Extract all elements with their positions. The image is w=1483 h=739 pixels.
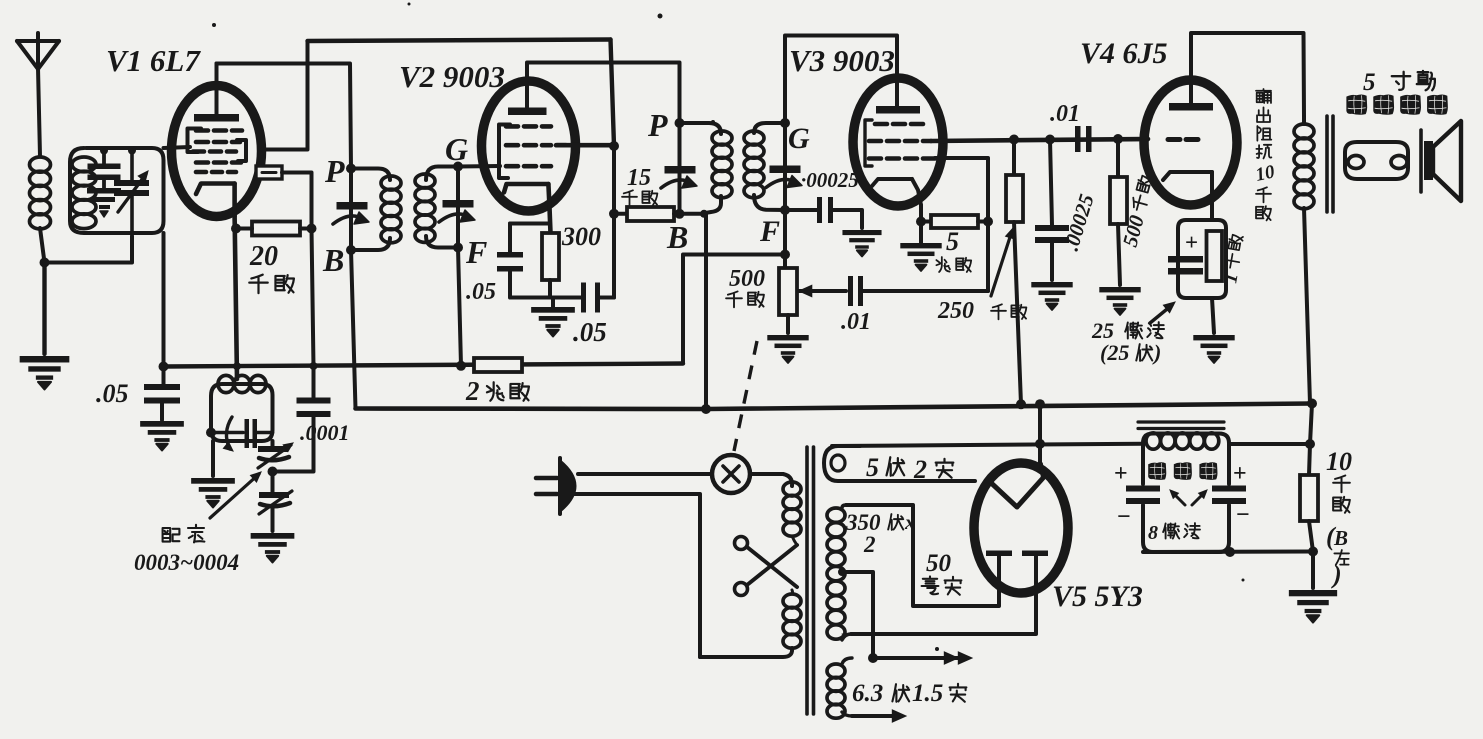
primary winding upper — [783, 482, 801, 536]
T1 primary coil — [381, 176, 401, 243]
svg-text:10: 10 — [1326, 447, 1352, 476]
wire T2 primary line — [678, 123, 682, 214]
wire T1 primary line — [349, 169, 353, 251]
wire switch to primary — [750, 474, 792, 486]
svg-text:−: − — [1236, 502, 1250, 528]
label .00025 t2 — [801, 168, 859, 192]
ground in-box — [87, 180, 121, 217]
ground trimmer2 — [251, 533, 295, 562]
V1 plate bar — [194, 114, 239, 122]
label 6.3V — [852, 680, 966, 707]
label 8uF — [1148, 522, 1200, 544]
resistor 2M — [474, 358, 522, 372]
tube V5 5Y3 — [974, 463, 1068, 593]
label .05 cath — [466, 279, 496, 305]
wire screen top bus — [308, 40, 611, 42]
wire V5 right plate — [851, 556, 1036, 634]
label qian-ou 20k — [249, 275, 294, 293]
selector X — [735, 537, 798, 596]
capacitor 8uF right — [1212, 486, 1246, 505]
svg-text:1.5: 1.5 — [912, 680, 943, 707]
tube V4 6J5 — [1144, 80, 1237, 205]
label V4 6J5 — [1080, 37, 1168, 70]
V3 grid cap bar — [876, 106, 920, 114]
label 20 — [249, 241, 278, 272]
svg-text:50: 50 — [926, 550, 952, 577]
capacitor .01 wiper — [848, 276, 988, 306]
label P1 — [324, 153, 345, 189]
label 50mA b — [0, 0, 1, 1]
label .05 left — [96, 379, 129, 408]
wire plug top — [578, 472, 712, 476]
svg-text:F: F — [759, 215, 780, 248]
V1 grid dashes r3 — [193, 149, 236, 154]
label 1k rot — [1219, 234, 1249, 285]
T2 primary trimmer — [661, 166, 697, 188]
ground pot — [767, 335, 808, 363]
wire T2 B drop — [704, 214, 708, 409]
speaker xfmr line — [1302, 117, 1306, 124]
svg-text:.01: .01 — [1050, 101, 1080, 127]
ground F2 bypass — [842, 230, 881, 256]
T1 secondary coil — [415, 174, 435, 242]
label plus 25uF — [1185, 230, 1198, 255]
label 350Vx2 — [845, 510, 916, 557]
node cathode-20k — [231, 224, 241, 234]
V1 grid dashes r5 — [196, 170, 236, 175]
label 2 MOhm — [465, 376, 529, 406]
antenna coil secondary box — [70, 148, 164, 233]
label pot qian-ou — [726, 291, 764, 307]
capacitor antenna trimmer — [88, 151, 121, 181]
ground 10k — [1289, 590, 1337, 623]
node B+ 250k — [1016, 399, 1026, 409]
node AVC-cath — [233, 362, 241, 370]
label output imp vertical — [1254, 89, 1277, 220]
V4 cathode — [1163, 172, 1212, 220]
antenna coil primary — [30, 157, 51, 229]
node screen-15k — [609, 209, 619, 219]
wire V2 plate top — [527, 63, 680, 124]
arrow 250k — [991, 228, 1014, 296]
capacitor padder — [258, 441, 293, 468]
label G1 — [445, 131, 468, 167]
V2 grid dashes r1 — [506, 124, 551, 129]
T1 primary loop — [351, 169, 390, 251]
ground antenna — [20, 356, 70, 389]
T1 primary trimmer — [333, 202, 369, 224]
primary winding lower — [783, 536, 801, 648]
label V2 9003 — [399, 59, 505, 94]
svg-text:(25: (25 — [1100, 340, 1129, 365]
V1 grid bracket left — [188, 129, 202, 153]
label .01 coupling — [1050, 101, 1080, 127]
V2 grid bracket — [499, 125, 510, 179]
svg-text:.05: .05 — [466, 279, 496, 305]
wire V3 cathode down — [919, 205, 923, 222]
wire center tap — [842, 572, 873, 658]
capacitor main tuning C1 — [114, 151, 149, 234]
speaker cone — [1433, 121, 1461, 201]
svg-text:10: 10 — [1254, 161, 1277, 186]
svg-text:.00025: .00025 — [1059, 191, 1099, 253]
V2 cathode — [504, 184, 551, 233]
svg-text:20: 20 — [249, 241, 278, 272]
wire field coil right — [1229, 442, 1310, 446]
svg-text:V3 9003: V3 9003 — [789, 43, 895, 78]
wire V1 plate to top — [215, 64, 219, 115]
V4 cathode box — [1178, 220, 1226, 298]
wire osc box gnd — [211, 441, 215, 476]
node field right — [1305, 439, 1315, 449]
wire V5 left plate — [846, 505, 999, 606]
xfmr core — [807, 447, 814, 714]
T1 secondary loop — [426, 167, 458, 248]
wire V1 plate top run — [217, 64, 352, 169]
node B+ right — [1307, 399, 1317, 409]
wire trimmer2 gnd — [271, 508, 275, 531]
svg-text:V2 9003: V2 9003 — [399, 59, 505, 94]
V3 bracket — [865, 120, 872, 166]
antenna coil secondary — [72, 157, 96, 229]
label V5 5Y3 — [1052, 580, 1143, 613]
wire G1 to V2 — [458, 164, 500, 169]
V2 plate bar — [508, 108, 547, 116]
ground .05 left — [140, 421, 184, 450]
capacitor .0001 — [297, 366, 331, 417]
label 15k qian-ou — [622, 190, 657, 205]
V3 grid dashes r1 — [875, 122, 923, 127]
dashed line pot-switch — [734, 341, 757, 451]
V5 plates — [986, 551, 1048, 557]
wire T1 sec line — [456, 167, 460, 248]
node G2 — [780, 118, 790, 128]
node 20k right — [307, 224, 317, 234]
label peiding — [163, 525, 205, 543]
V1 grid dashes r2 — [196, 140, 240, 145]
specks — [212, 3, 1245, 652]
ground V2 cathode — [531, 298, 575, 337]
wire wiper up — [986, 222, 990, 292]
label 500 pot — [729, 266, 765, 292]
T2 primary loop — [680, 123, 722, 213]
label 300 — [561, 222, 601, 251]
label + right — [1233, 461, 1247, 487]
label .05 screen — [573, 317, 607, 347]
speaker magnet — [1421, 130, 1433, 192]
wire V4 cath gnd — [1212, 298, 1214, 333]
arrow 25uF — [1150, 302, 1175, 323]
svg-text:G: G — [788, 122, 810, 155]
resistor 5M grid leak — [921, 215, 988, 228]
wire ant sec bottom drop — [162, 233, 166, 367]
node G1 — [453, 162, 463, 172]
node F1 — [453, 243, 463, 253]
label 50mA — [922, 550, 962, 595]
svg-text:): ) — [1331, 560, 1342, 589]
node tuning cap top — [128, 147, 136, 155]
capacitor .00025 plate — [1035, 140, 1069, 281]
wire junction down — [42, 263, 46, 355]
wire V1 osc grid — [282, 173, 312, 229]
winding 6.3V — [827, 658, 852, 718]
arrow peiding — [210, 472, 261, 518]
svg-text:2: 2 — [913, 455, 927, 484]
field coil core — [1138, 422, 1224, 429]
V3 grid dashes r3 — [869, 156, 935, 161]
node filament-B+ — [1035, 439, 1045, 449]
wire AVC bus — [164, 364, 684, 367]
label 5 — [946, 227, 959, 256]
wire F1 drop — [458, 248, 461, 366]
svg-text:−: − — [1117, 504, 1131, 530]
node right cap bottom — [1225, 547, 1235, 557]
node P1 — [346, 164, 356, 174]
label 10k — [1326, 447, 1352, 589]
label F1 — [465, 234, 487, 270]
svg-text:): ) — [1152, 340, 1161, 365]
svg-text:2: 2 — [465, 376, 480, 406]
node plate-250k — [1009, 135, 1019, 145]
label 5V2A — [866, 453, 953, 484]
wire padder to .0001 — [273, 417, 314, 472]
svg-text:8: 8 — [1148, 522, 1158, 544]
wire antenna lead-in — [38, 68, 40, 156]
node HV center tap — [838, 568, 846, 576]
svg-text:15: 15 — [627, 165, 651, 191]
label 250k — [937, 298, 1026, 324]
node antenna junction — [40, 258, 50, 268]
node screen-V2 — [609, 141, 619, 151]
svg-text:300: 300 — [561, 222, 601, 251]
svg-text:350: 350 — [845, 510, 881, 535]
wire 10k gnd — [1311, 552, 1315, 589]
oscillator coil loops — [218, 375, 266, 392]
capacitor .05 cathode — [497, 224, 553, 298]
label .00025 rot — [1059, 191, 1099, 253]
svg-text:V4 6J5: V4 6J5 — [1080, 37, 1168, 70]
node V3 cathode — [916, 217, 926, 227]
ground osc — [191, 478, 235, 507]
wire F2 avc link — [683, 255, 785, 364]
V1 grid dashes r4 — [196, 160, 241, 165]
wire antenna coil to junction — [40, 228, 45, 263]
wire B+ link — [1038, 404, 1042, 464]
wire 6.3 arrow — [852, 710, 906, 722]
wire G2 up-over — [785, 36, 897, 124]
label + left — [1114, 461, 1128, 487]
capacitor F2 bypass — [785, 197, 862, 228]
wire B2 to drop — [680, 212, 705, 216]
antenna — [17, 33, 59, 69]
wire junction to tuning cap — [45, 236, 133, 263]
svg-text:x: x — [904, 510, 916, 534]
V1 screen wire — [262, 41, 308, 150]
T2 primary coil — [712, 131, 732, 198]
svg-text:.01: .01 — [841, 309, 871, 335]
wire filter bottom rail — [1143, 550, 1313, 555]
wire primary bottom — [557, 494, 792, 657]
node AVC-F1 — [456, 361, 466, 371]
V4 plate bar — [1169, 103, 1213, 111]
resistor 500k pot — [779, 255, 797, 334]
T2 secondary coil — [744, 131, 764, 198]
node grid-500k — [1113, 134, 1123, 144]
AC plug — [536, 458, 575, 514]
label field coil — [1148, 462, 1217, 480]
label .0001 — [300, 420, 350, 445]
wire T2 sec line — [783, 123, 787, 255]
wire V3 grid out — [935, 158, 988, 222]
wire plug bottom — [0, 0, 1, 1]
V1 grid dashes r1 — [196, 128, 242, 133]
wire 5V loop — [824, 446, 975, 481]
svg-text:V5 5Y3: V5 5Y3 — [1052, 580, 1143, 613]
node AVC-oscgrid — [310, 362, 318, 370]
switch — [712, 455, 750, 493]
node plate-00025 — [1045, 135, 1055, 145]
V3 cathode — [872, 179, 921, 205]
pot wiper arrow — [799, 285, 846, 296]
svg-text:+: + — [1185, 230, 1198, 255]
svg-text:P: P — [647, 107, 668, 143]
V5 filament — [988, 464, 1043, 507]
label B1 — [322, 242, 344, 278]
svg-text:2: 2 — [863, 532, 876, 557]
field coil loops — [1146, 433, 1219, 449]
svg-text:B: B — [322, 242, 344, 278]
voice coil loop — [1345, 142, 1408, 179]
oscillator coil box — [211, 384, 273, 441]
T2 secondary trimmer — [766, 166, 802, 188]
T2 secondary loop — [754, 123, 785, 210]
node F2a — [780, 205, 790, 215]
V1 grid bracket right — [237, 140, 246, 161]
V3 grid dashes r2 — [869, 139, 931, 144]
label 5M zhao-ou — [936, 257, 971, 272]
voice coil eyes — [1348, 156, 1407, 169]
capacitor trimmer2 — [259, 472, 292, 515]
speaker xfmr core — [1327, 116, 1333, 212]
svg-text:F: F — [465, 234, 487, 270]
node 10k bottom — [1308, 547, 1318, 557]
capacitor .05 left — [144, 367, 180, 421]
svg-text:500: 500 — [729, 266, 765, 292]
osc trimmer cap — [211, 419, 273, 448]
label .01 — [841, 309, 871, 335]
label 500k rot — [1118, 174, 1160, 249]
label G2 — [788, 122, 810, 155]
node V3 grid junction — [983, 217, 993, 227]
V4 grid dashes — [1168, 137, 1198, 142]
field coil arrows — [1170, 490, 1207, 505]
V2 grid dashes r3 — [506, 164, 551, 169]
node trimmer top — [100, 147, 108, 155]
label 0003-0004 — [134, 550, 239, 575]
node padder — [268, 467, 278, 477]
node ct-6.3 — [868, 653, 878, 663]
ground V4 cathode — [1193, 335, 1234, 363]
resistor 300 cathode — [510, 224, 559, 298]
label P2 — [647, 107, 668, 143]
svg-text:0003~0004: 0003~0004 — [134, 550, 239, 575]
label 15 — [627, 165, 651, 191]
svg-text:.05: .05 — [96, 379, 129, 408]
resistor 20k — [237, 222, 312, 236]
label speaker cjk — [1346, 94, 1447, 114]
label 25uF — [1091, 318, 1164, 343]
tube V2 9003 — [482, 81, 576, 211]
node B+ filament — [1035, 399, 1045, 409]
HV winding 350V — [827, 505, 851, 640]
label 25V — [1100, 340, 1161, 365]
tube V1 6L7 — [172, 86, 262, 217]
svg-text:G: G — [445, 131, 468, 167]
T1 secondary trimmer — [439, 200, 475, 222]
svg-text:.05: .05 — [573, 317, 607, 347]
speaker xfmr coil — [1294, 124, 1314, 209]
svg-text:5: 5 — [866, 453, 879, 482]
label 5 inch — [1363, 69, 1435, 96]
wire B+ bus — [356, 404, 1313, 410]
svg-text:V1 6L7: V1 6L7 — [106, 43, 201, 78]
resistor 10k — [1300, 475, 1318, 552]
node B+ T2drop — [701, 404, 711, 414]
svg-text:.0001: .0001 — [300, 420, 350, 445]
svg-text:5: 5 — [946, 227, 959, 256]
node B1 — [346, 245, 356, 255]
label - left — [1117, 504, 1131, 530]
capacitor .01 coupling — [1075, 126, 1092, 152]
svg-text:P: P — [324, 153, 345, 189]
svg-text:B: B — [666, 219, 688, 255]
V2 screen wire — [556, 143, 614, 148]
wire osc grid down — [312, 229, 314, 367]
svg-text:B: B — [1333, 526, 1348, 550]
osc trimmer arrow — [223, 417, 233, 451]
capacitor 25uF — [1168, 256, 1203, 275]
V2 grid dashes r2 — [506, 143, 566, 148]
label V1 6L7 — [106, 43, 201, 78]
resistor 500k v4 — [1110, 139, 1127, 285]
svg-text:+: + — [1114, 461, 1128, 487]
svg-text:250: 250 — [937, 298, 974, 324]
wire G1 to V1 — [164, 147, 191, 148]
wire ct arrow — [873, 652, 972, 664]
ground 500k v4 — [1099, 287, 1140, 315]
wire bus corner down — [1309, 404, 1312, 476]
wire B1 drop — [351, 250, 356, 409]
resistor 1k — [1207, 231, 1223, 281]
ground V3 cathode — [900, 222, 941, 271]
svg-text:·00025: ·00025 — [801, 168, 859, 192]
wire screen bus v2 down — [612, 146, 616, 298]
label V3 9003 — [789, 43, 895, 78]
svg-text:6.3: 6.3 — [852, 680, 883, 707]
tube V3 9003 — [853, 78, 943, 206]
node T2 loop bottom — [700, 210, 708, 218]
V1 grid pin — [256, 166, 282, 179]
svg-text:5: 5 — [1363, 69, 1376, 96]
capacitor 8uF left — [1126, 486, 1160, 505]
node AVC-ant — [159, 362, 169, 372]
node F2b — [780, 250, 790, 260]
capacitor .05 screen — [553, 283, 614, 313]
wire xfmr down — [1304, 208, 1310, 404]
wire filament line — [832, 444, 1143, 446]
wire screen bus right drop — [611, 40, 615, 147]
label - right — [1236, 502, 1250, 528]
